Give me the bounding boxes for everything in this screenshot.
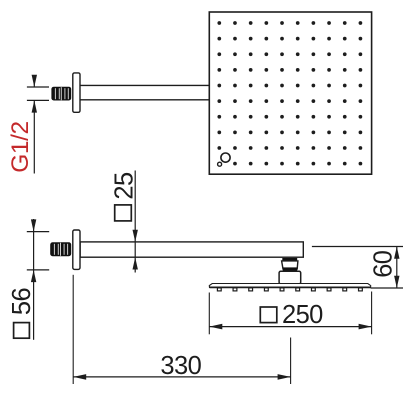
wall flange top view — [73, 73, 80, 112]
label square 56 — [14, 323, 30, 339]
dimension 330 line + arrows — [73, 376, 290, 378]
svg-text:250: 250 — [282, 301, 323, 329]
ball joint: cone — [282, 261, 298, 269]
dimension 250 extension lines — [209, 292, 371, 335]
threaded nipple top view — [51, 87, 71, 101]
dimension G1/2 ticks — [27, 87, 49, 100]
svg-text:25: 25 — [110, 172, 138, 200]
ball joint: mounting boss — [279, 271, 301, 283]
dimension G1/2 line + arrows — [33, 75, 35, 174]
svg-text:56: 56 — [8, 288, 36, 316]
threaded nipple side view — [50, 242, 71, 256]
ball joint: top nut band — [282, 258, 297, 261]
ball joint: lower band — [283, 267, 298, 271]
shower head side view slab — [209, 284, 370, 288]
svg-text:60: 60 — [369, 250, 397, 278]
detail magnifier icon — [218, 153, 230, 166]
dimension 56 line + arrows — [33, 219, 35, 340]
wall flange side view — [73, 230, 80, 269]
dimension 60 ticks — [312, 247, 403, 289]
svg-text:330: 330 — [160, 352, 201, 380]
shower arm side view — [80, 242, 303, 257]
dimension 25 line + arrows — [134, 171, 136, 273]
nozzle teeth — [217, 288, 362, 291]
svg-text:G1/2: G1/2 — [7, 121, 34, 173]
label square 250 — [260, 307, 277, 323]
dimension 250 line + arrows — [209, 326, 371, 328]
dimension 330 extension lines — [73, 275, 290, 384]
label square 25 — [115, 205, 132, 221]
wire: shower arm top view — [80, 85, 209, 99]
dimension 56 ticks — [27, 232, 49, 270]
nozzle dot grid — [217, 21, 362, 165]
shower head top view: face plate — [209, 12, 371, 174]
dimension 60 line + arrows — [396, 247, 398, 289]
